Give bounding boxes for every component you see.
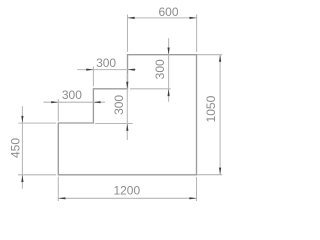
dimension 450: bottom extension xyxy=(18,174,56,176)
dimension 450: dimension line with tails xyxy=(21,106,23,189)
dimension 300 lower horizontal: dimension line with tails xyxy=(44,101,106,103)
dimension 1200: extension line right xyxy=(196,177,198,201)
svg-text:450: 450 xyxy=(9,138,23,158)
dimension 600: extension line left xyxy=(127,15,129,52)
dimension 1050: dimension line xyxy=(219,55,221,175)
dimension 300 upper horizontal: right arrow (outside, pointing left) xyxy=(128,69,135,71)
dimension 300 upper vertical: bottom arrow (outside, pointing up) xyxy=(168,89,170,96)
stepped profile outline xyxy=(58,55,196,175)
dimension 1200: dimension line xyxy=(58,197,196,199)
svg-text:300: 300 xyxy=(153,59,167,79)
dimension 1050: top extension (top edge extended right) xyxy=(197,54,222,56)
dimension 300 lower vertical: dimension line with tails xyxy=(126,73,128,140)
dimension 1050: bottom extension (bottom edge extended right) xyxy=(197,174,222,176)
dimension 1050: bottom arrow xyxy=(219,168,221,175)
dimension 300 lower vertical: top arrow (outside, pointing down) xyxy=(126,82,128,89)
dimension 600: right arrow xyxy=(190,17,197,19)
svg-text:1050: 1050 xyxy=(204,95,218,122)
dimension 450: top arrow (outside, pointing down) xyxy=(21,116,23,123)
dimension 300 lower vertical: bottom arrow (outside, pointing up) xyxy=(126,124,128,131)
svg-text:300: 300 xyxy=(96,56,116,70)
dimension 300 upper horizontal: dimension line with tails xyxy=(77,69,136,71)
dimension 450: bottom arrow (outside, pointing up) xyxy=(21,175,23,182)
dimension 300 upper vertical: dimension line with tails xyxy=(168,38,170,102)
dimension 600: dimension line xyxy=(128,17,197,19)
dimension 450: top extension xyxy=(18,122,56,124)
dimension 1200: extension line left xyxy=(57,177,59,201)
dimension 300 lower horizontal: right arrow xyxy=(94,101,101,103)
dimension 300 lower horizontal: extension line at x=58.3 xyxy=(57,99,59,121)
dimension 300 lower horizontal: left arrow xyxy=(51,101,58,103)
dimension 300 upper vertical: top arrow (outside, pointing down) xyxy=(168,48,170,55)
svg-text:300: 300 xyxy=(112,95,126,115)
dimension 1050: top arrow xyxy=(219,55,221,62)
dimension 600: extension line right xyxy=(196,15,198,53)
dimension 300 lower vertical: extension line at y=123.5 xyxy=(95,123,132,125)
dimension 1200: right arrow xyxy=(189,197,196,199)
dimension 300 upper horizontal: left arrow (outside, pointing right) xyxy=(86,69,93,71)
svg-text:300: 300 xyxy=(62,88,82,102)
dimension 300 upper horizontal: extension line at x=93.4 xyxy=(92,67,94,87)
dimension 600: left arrow xyxy=(128,17,135,19)
svg-text:600: 600 xyxy=(158,5,178,19)
svg-text:1200: 1200 xyxy=(113,183,140,197)
dimension 300 upper vertical: extension line at y=88.9 xyxy=(130,88,171,90)
dimension 1200: left arrow xyxy=(58,197,65,199)
